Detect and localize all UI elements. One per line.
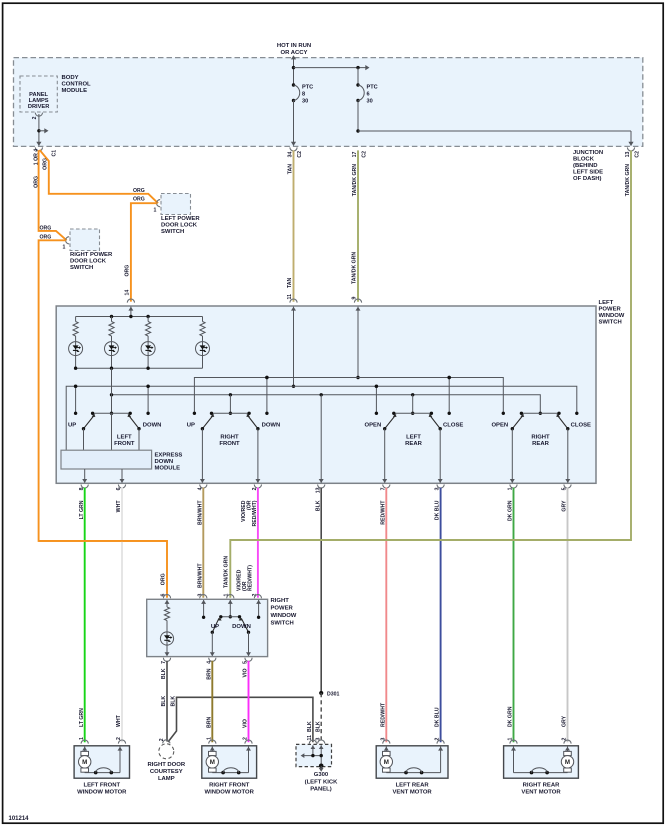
svg-text:WINDOW MOTOR: WINDOW MOTOR bbox=[77, 789, 127, 795]
wire TAN/DK GRN junction block pin 13 to right power window switch pin 1 bbox=[224, 150, 641, 598]
connector left power window switch pin 14 bbox=[127, 299, 134, 303]
svg-text:LEFT: LEFT bbox=[117, 435, 132, 441]
svg-text:SWITCH: SWITCH bbox=[70, 265, 93, 271]
svg-text:SWITCH: SWITCH bbox=[271, 621, 294, 627]
svg-text:SWITCH: SWITCH bbox=[161, 229, 184, 235]
wire DK BLU pin 3 to left rear vent motor bbox=[435, 485, 445, 744]
wire BRN/WHT pin 4 to right power window switch pin 3 bbox=[197, 485, 207, 599]
svg-text:M: M bbox=[384, 759, 389, 766]
diagram number 101214 bbox=[9, 816, 30, 822]
wire RED/WHT pin 7 to left rear vent motor bbox=[380, 485, 390, 744]
switch right rear bbox=[491, 412, 591, 447]
pin 1 entry to rocker bar bbox=[228, 600, 233, 619]
BCM pin label 1 OR 4 connector C1 bbox=[33, 149, 57, 166]
circuit breaker PTC 6 30A bbox=[356, 68, 377, 105]
svg-text:34: 34 bbox=[287, 151, 293, 157]
svg-text:WINDOW MOTOR: WINDOW MOTOR bbox=[205, 789, 255, 795]
svg-text:BLK: BLK bbox=[315, 500, 321, 511]
svg-text:DOOR LOCK: DOOR LOCK bbox=[161, 223, 198, 229]
svg-text:UP: UP bbox=[187, 423, 195, 429]
junction block label bbox=[573, 150, 603, 182]
svg-text:WHT: WHT bbox=[116, 714, 122, 727]
svg-text:CONTROL: CONTROL bbox=[62, 82, 92, 88]
wire ORG splice to left branch labels bbox=[40, 158, 52, 241]
svg-text:COURTESY: COURTESY bbox=[150, 769, 183, 775]
illumination bus bottom bbox=[74, 367, 203, 370]
switch left front bbox=[68, 368, 161, 447]
svg-text:101214: 101214 bbox=[9, 816, 30, 822]
svg-text:BLK: BLK bbox=[307, 721, 313, 732]
left power door lock switch bbox=[154, 194, 201, 236]
svg-text:VIO: VIO bbox=[243, 719, 249, 728]
svg-text:(LEFT KICK: (LEFT KICK bbox=[305, 780, 338, 786]
svg-text:DK GRN: DK GRN bbox=[508, 706, 514, 727]
svg-text:DOWN: DOWN bbox=[143, 423, 162, 429]
illumination bus top bbox=[76, 315, 203, 318]
wire BLK right power window switch pin 7 to courtesy lamp bbox=[159, 658, 171, 742]
svg-text:TAN/DK GRN: TAN/DK GRN bbox=[224, 556, 230, 588]
svg-text:1: 1 bbox=[154, 208, 157, 214]
svg-text:EXPRESS: EXPRESS bbox=[155, 453, 183, 459]
svg-text:M: M bbox=[565, 759, 570, 766]
svg-text:OF DASH): OF DASH) bbox=[573, 176, 602, 182]
svg-text:BRN/WHT: BRN/WHT bbox=[197, 563, 203, 588]
wire PTC8 output to box edge pin 34 C2 bbox=[290, 101, 297, 152]
svg-text:UP: UP bbox=[211, 624, 219, 630]
svg-text:11: 11 bbox=[287, 294, 293, 300]
svg-text:CLOSE: CLOSE bbox=[571, 423, 591, 429]
svg-text:FRONT: FRONT bbox=[114, 441, 135, 447]
svg-text:BLOCK: BLOCK bbox=[573, 157, 595, 163]
pin 2 entry to DOWN contact bbox=[256, 600, 261, 619]
svg-text:VENT MOTOR: VENT MOTOR bbox=[521, 789, 561, 795]
illumination resistor 1 bbox=[73, 317, 78, 369]
svg-text:UP: UP bbox=[68, 423, 76, 429]
svg-text:BLK: BLK bbox=[171, 696, 177, 707]
svg-text:VIO/RED: VIO/RED bbox=[241, 500, 247, 522]
pin 3 entry to UP contact bbox=[201, 600, 206, 619]
wire PTC6 output routed right to pin 13 C2 bbox=[356, 101, 634, 152]
svg-text:ORG: ORG bbox=[160, 573, 166, 585]
svg-text:LEFT: LEFT bbox=[406, 435, 421, 441]
rail 3 ground bbox=[110, 393, 541, 413]
svg-text:6: 6 bbox=[367, 92, 370, 98]
wire TAN/DK GRN horizontal segment over crossings bbox=[230, 539, 631, 541]
pin 14 entry arrow bbox=[128, 307, 133, 317]
wire TAN pin 34 to left power window switch pin 11 bbox=[287, 150, 303, 302]
left power window switch box bbox=[56, 306, 596, 483]
left front window motor bbox=[74, 746, 129, 796]
svg-text:13: 13 bbox=[315, 487, 321, 493]
svg-text:OPEN: OPEN bbox=[491, 423, 508, 429]
panel lamps driver output pin 2 bbox=[32, 113, 43, 120]
wire BLK pin 13 to splice D301 bbox=[315, 485, 325, 694]
connector right power window switch pin 6 bbox=[163, 595, 170, 599]
svg-text:POWER: POWER bbox=[599, 307, 622, 313]
switch output wires right front bbox=[200, 429, 260, 483]
wire rail3 to ground pin 13 bbox=[319, 395, 324, 483]
svg-text:PTC: PTC bbox=[367, 85, 378, 91]
svg-text:LEFT SIDE: LEFT SIDE bbox=[573, 170, 603, 176]
wire hot feed into junction block bbox=[291, 55, 296, 85]
illumination LED 3 bbox=[141, 342, 155, 356]
svg-text:DOWN: DOWN bbox=[232, 624, 251, 630]
rail 2 feed bbox=[66, 385, 577, 451]
ground G300 symbol bbox=[305, 764, 338, 793]
svg-text:BLK: BLK bbox=[315, 721, 321, 732]
svg-text:RIGHT DOOR: RIGHT DOOR bbox=[147, 762, 185, 768]
wire WHT pin 6 to left front window motor bbox=[116, 485, 126, 744]
svg-text:ORG: ORG bbox=[124, 265, 130, 277]
svg-text:17: 17 bbox=[352, 151, 358, 157]
svg-text:REAR: REAR bbox=[405, 441, 422, 447]
svg-text:FRONT: FRONT bbox=[219, 441, 240, 447]
svg-text:GRY: GRY bbox=[562, 715, 568, 727]
illumination LED 2 bbox=[105, 342, 119, 356]
svg-text:RED/WHT): RED/WHT) bbox=[247, 565, 253, 591]
panel lamps driver box bbox=[20, 76, 57, 112]
svg-text:OR ACCY: OR ACCY bbox=[281, 50, 308, 56]
svg-text:BLK: BLK bbox=[161, 696, 167, 707]
svg-text:(OR: (OR bbox=[242, 581, 248, 591]
rocker bar and arms bbox=[211, 615, 251, 634]
svg-text:M: M bbox=[82, 759, 87, 766]
illumination resistor 2 bbox=[109, 317, 114, 369]
label HOT IN RUN OR ACCY bbox=[277, 43, 311, 56]
svg-text:C2: C2 bbox=[361, 151, 367, 158]
svg-text:BODY: BODY bbox=[62, 75, 79, 81]
wire GRY pin 5 to right rear vent motor bbox=[562, 485, 572, 744]
wire ORG label and pin 6 at right power window switch bbox=[160, 573, 166, 596]
right power window switch LED bbox=[160, 632, 173, 656]
rail 1 battery feed bbox=[194, 376, 503, 414]
svg-text:WINDOW: WINDOW bbox=[271, 613, 297, 619]
illumination resistor 3 bbox=[146, 317, 151, 369]
svg-text:DOOR LOCK: DOOR LOCK bbox=[70, 259, 107, 265]
wire ORG BCM to right power door lock switch bbox=[33, 150, 66, 240]
svg-text:RIGHT FRONT: RIGHT FRONT bbox=[209, 782, 250, 788]
illumination LED 4 bbox=[196, 342, 210, 356]
svg-text:RIGHT REAR: RIGHT REAR bbox=[523, 782, 560, 788]
express down module outputs bbox=[82, 469, 124, 483]
left rear vent motor bbox=[376, 746, 448, 796]
wire BLK courtesy lamp to ground G300 pin 11 bbox=[168, 696, 317, 744]
right power window switch box bbox=[147, 599, 268, 656]
svg-text:C2: C2 bbox=[634, 151, 640, 158]
svg-text:(OR: (OR bbox=[246, 500, 252, 510]
wire TAN/DK GRN pin 17 to left power window switch pin 9 bbox=[352, 150, 368, 302]
wire panel lamps driver to BCM pin with branch arrow bbox=[35, 114, 48, 151]
svg-text:G300: G300 bbox=[314, 772, 329, 778]
svg-text:CLOSE: CLOSE bbox=[443, 423, 463, 429]
switch left rear bbox=[365, 376, 464, 447]
wire ORG BCM diagonal branch to left power door lock switch bbox=[40, 150, 159, 203]
svg-text:POWER: POWER bbox=[271, 606, 294, 612]
switch right front bbox=[187, 376, 280, 447]
svg-text:OPEN: OPEN bbox=[365, 423, 382, 429]
svg-text:8: 8 bbox=[302, 92, 305, 98]
svg-text:ORG: ORG bbox=[133, 188, 145, 194]
svg-text:REAR: REAR bbox=[532, 441, 549, 447]
svg-text:SWITCH: SWITCH bbox=[599, 320, 622, 326]
pin 9 entry arrow and wire to rail bbox=[356, 307, 361, 380]
wire ORG horizontal segment over crossings bbox=[39, 540, 167, 542]
wire VIO/RED pin 2 to right power window switch pin 2 bbox=[236, 485, 261, 599]
illumination resistor 4 bbox=[200, 317, 205, 369]
svg-text:(BEHIND: (BEHIND bbox=[573, 163, 598, 169]
svg-text:LAMP: LAMP bbox=[158, 776, 175, 782]
svg-text:RIGHT: RIGHT bbox=[271, 598, 290, 604]
svg-text:30: 30 bbox=[367, 98, 373, 104]
svg-text:TAN/DK GRN: TAN/DK GRN bbox=[352, 164, 358, 196]
svg-text:ORG: ORG bbox=[33, 176, 39, 188]
svg-text:C2: C2 bbox=[297, 151, 303, 158]
svg-text:DOWN: DOWN bbox=[155, 459, 174, 465]
svg-text:LEFT REAR: LEFT REAR bbox=[396, 782, 430, 788]
svg-text:PTC: PTC bbox=[302, 85, 313, 91]
right door courtesy lamp bbox=[147, 740, 185, 782]
circuit breaker PTC 8 30A bbox=[292, 83, 313, 104]
illumination LED 1 bbox=[69, 342, 83, 356]
right power door lock switch bbox=[63, 229, 113, 271]
express down module bbox=[61, 413, 182, 471]
svg-text:HOT IN RUN: HOT IN RUN bbox=[277, 43, 311, 49]
svg-text:VENT MOTOR: VENT MOTOR bbox=[393, 789, 433, 795]
svg-text:13: 13 bbox=[625, 151, 631, 157]
svg-text:LEFT POWER: LEFT POWER bbox=[161, 216, 200, 222]
right power window switch label bbox=[271, 598, 297, 627]
svg-text:RIGHT POWER: RIGHT POWER bbox=[70, 252, 113, 258]
pin 11 entry arrow and wire to rail bbox=[291, 307, 296, 388]
switch output wires left rear bbox=[382, 429, 442, 483]
body control module label bbox=[62, 75, 92, 94]
wire ORG left door lock switch to left power window switch pin 14 bbox=[124, 197, 156, 302]
wire VIO right power window switch pin 5 to right front motor pin 2 bbox=[243, 658, 253, 744]
switch outputs to motor bbox=[210, 632, 251, 656]
svg-text:PANEL): PANEL) bbox=[310, 787, 332, 793]
svg-text:RIGHT: RIGHT bbox=[531, 435, 550, 441]
svg-text:2: 2 bbox=[32, 116, 38, 119]
right rear vent motor bbox=[504, 746, 579, 796]
wire BLK splice D301 to ground G300 pin 3 (dashed) bbox=[315, 693, 325, 744]
svg-text:RED/WHT: RED/WHT bbox=[380, 702, 386, 727]
svg-text:TAN/DK GRN: TAN/DK GRN bbox=[352, 252, 358, 284]
svg-text:TAN: TAN bbox=[287, 277, 293, 288]
right front window motor bbox=[202, 746, 257, 796]
svg-text:LT GRN: LT GRN bbox=[79, 708, 85, 727]
svg-text:ORG: ORG bbox=[133, 197, 145, 203]
svg-text:WINDOW: WINDOW bbox=[599, 313, 625, 319]
wire BRN right power window switch pin 4 to right front motor pin 1 bbox=[206, 658, 216, 744]
left power window switch label bbox=[599, 300, 625, 326]
svg-text:ORG: ORG bbox=[40, 225, 52, 231]
wire branch to second breaker and arrow right bbox=[294, 65, 370, 70]
svg-text:TAN/DK GRN: TAN/DK GRN bbox=[625, 164, 631, 196]
svg-text:VIO/RED: VIO/RED bbox=[236, 569, 242, 591]
ground G300 box bbox=[296, 744, 332, 766]
pin 6 entry arrow and illumination resistor bbox=[164, 600, 169, 656]
svg-text:TAN: TAN bbox=[287, 164, 293, 175]
svg-text:MODULE: MODULE bbox=[62, 88, 88, 94]
splice D301 bbox=[319, 691, 339, 698]
svg-text:MODULE: MODULE bbox=[155, 466, 181, 472]
svg-text:30: 30 bbox=[302, 98, 308, 104]
svg-text:M: M bbox=[210, 759, 215, 766]
svg-text:LEFT FRONT: LEFT FRONT bbox=[83, 782, 120, 788]
svg-text:RIGHT: RIGHT bbox=[220, 435, 239, 441]
svg-text:DK BLU: DK BLU bbox=[435, 707, 441, 727]
svg-text:DOWN: DOWN bbox=[262, 423, 281, 429]
junction block / body control module dashed box bbox=[14, 58, 643, 147]
wire LT GRN pin 8 to left front window motor bbox=[79, 485, 89, 744]
wire ORG right door lock switch down-left continuation bbox=[39, 240, 167, 598]
svg-text:C1: C1 bbox=[52, 150, 58, 157]
svg-text:LEFT: LEFT bbox=[599, 300, 614, 306]
svg-text:D301: D301 bbox=[327, 692, 340, 698]
svg-text:BRN: BRN bbox=[206, 717, 212, 728]
svg-text:DRIVER: DRIVER bbox=[28, 104, 50, 110]
wire DK GRN pin 1 to right rear vent motor bbox=[508, 485, 517, 744]
svg-text:JUNCTION: JUNCTION bbox=[573, 150, 603, 156]
svg-text:1: 1 bbox=[63, 245, 66, 251]
svg-text:14: 14 bbox=[124, 290, 130, 296]
switch output wires right rear bbox=[510, 429, 570, 483]
